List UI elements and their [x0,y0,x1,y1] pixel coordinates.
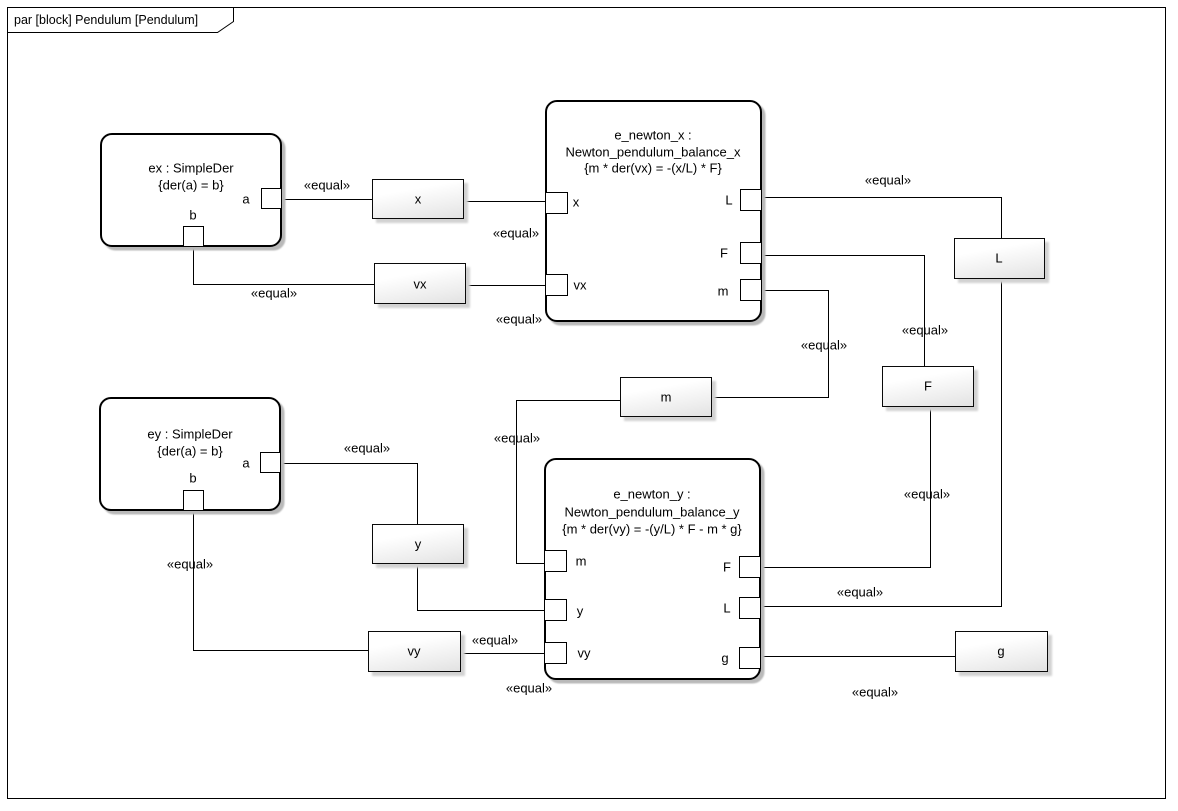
port label g [721,652,728,665]
port label vy [578,647,591,660]
wire m box to e_newton_y.m [517,401,621,564]
port label a [242,193,249,206]
constraint block e_newton_x [545,100,762,322]
constraint block ey [99,397,281,511]
wire ex.a to x box [282,199,372,201]
equal label E11 [494,432,540,445]
constraint block ex [100,133,282,247]
equal label E13 [167,558,213,571]
equal label E7 [801,339,847,352]
equal label E8 [904,488,950,501]
constraint block e_newton_y [544,458,761,680]
port label F [723,561,731,574]
wire e_newton_y.g to g box [762,656,955,658]
port label m [718,285,729,298]
port e_newton_x.vx [545,274,568,296]
port label L [725,194,732,207]
equal label E12 [344,442,390,455]
equal label E5 [865,174,911,187]
wire ex.b to vx box [194,247,375,285]
equal label E3 [251,287,297,300]
port e_newton_x.x [545,192,568,214]
port label b [189,472,196,485]
port label y [577,605,584,618]
port ex.a [261,188,282,209]
equal label E2 [493,227,539,240]
port e_newton_y.y [544,599,567,621]
port label L [723,602,730,615]
equal label E10 [852,686,898,699]
equal label E9 [837,586,883,599]
value box F [882,366,974,407]
value box g [955,631,1048,672]
port e_newton_y.vy [544,642,567,664]
wire e_newton_x.F to F box [762,256,925,367]
value box y [372,524,464,564]
wire ey.b to vy box [194,511,369,651]
frame tab text [14,13,198,27]
value box L [954,238,1045,279]
port e_newton_y.m [544,550,567,572]
equal label E6 [902,324,948,337]
value box m [620,377,712,417]
value box x [372,179,464,219]
wire vy box to e_newton_y.vy [461,653,546,655]
port label m [576,555,587,568]
port label a [242,457,249,470]
port ex.b [183,226,204,247]
port e_newton_y.L [739,597,761,619]
wire x box to e_newton_x.x [464,201,546,203]
wire e_newton_x.L to L box [762,198,1002,239]
port label b [189,209,196,222]
equal label E4 [496,313,542,326]
value box vy [368,631,461,672]
port e_newton_x.F [740,242,762,264]
wire e_newton_x.m to m box [712,291,829,398]
value box vx [374,263,466,304]
wire vx box to e_newton_x.vx [466,285,546,287]
port ey.a [260,452,281,473]
wire ey.a to y box [281,464,418,526]
equal label E15 [506,682,552,695]
port ey.b [183,490,204,511]
equal label E14 [472,634,518,647]
wire F box to e_newton_y.F [762,407,931,568]
port e_newton_y.F [739,556,761,578]
frame tab [7,7,235,34]
port e_newton_x.m [740,279,762,301]
port e_newton_y.g [739,647,761,669]
port label vx [574,279,587,292]
wire L box to e_newton_y.L [762,279,1002,607]
equal label E1 [304,179,350,192]
port e_newton_x.L [740,189,762,211]
port label F [720,247,728,260]
wire y box to e_newton_y.y [418,564,546,611]
port label x [573,196,580,209]
